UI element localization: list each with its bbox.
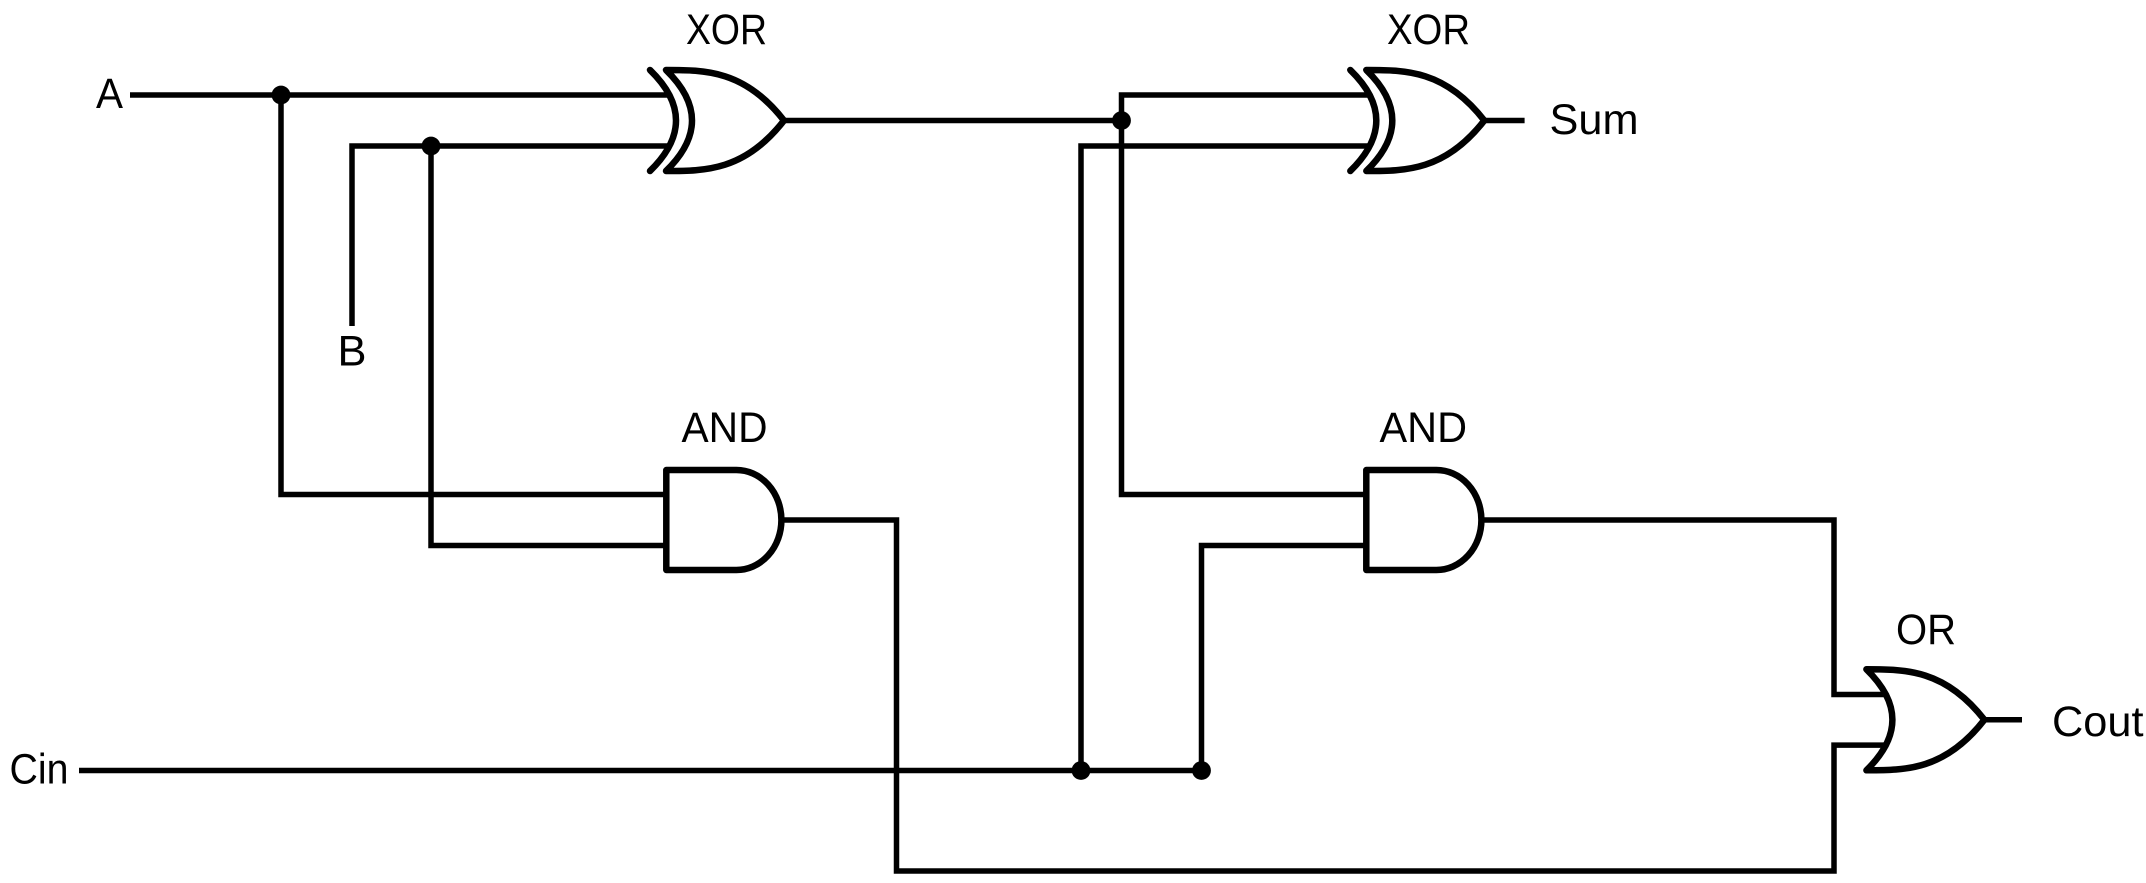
svg-text:Cin: Cin xyxy=(10,746,69,794)
XOR gate U3 (Sum) xyxy=(1350,70,1484,171)
node A junction xyxy=(272,86,291,105)
node XOR1 output junction xyxy=(1112,111,1131,130)
svg-text:AND: AND xyxy=(682,404,768,452)
wire Cin input xyxy=(79,768,1202,774)
node B junction xyxy=(422,137,441,156)
OR gate U5 (Cout) xyxy=(1866,669,1984,770)
node Cin junction 2 xyxy=(1192,761,1211,780)
svg-text:XOR: XOR xyxy=(686,6,767,54)
svg-text:Cout: Cout xyxy=(2052,698,2144,746)
wire A branch to AND1 top input xyxy=(281,95,666,495)
svg-text:OR: OR xyxy=(1896,606,1956,654)
wire XOR2 output stub (Sum) xyxy=(1484,118,1525,124)
svg-text:A: A xyxy=(96,70,123,118)
wire junction to XOR2 top input xyxy=(1122,95,1372,121)
wire AND2 output to OR top input xyxy=(1481,520,1884,695)
wire AND1 output to OR bottom input xyxy=(781,520,1884,871)
wire XOR1 output to junction xyxy=(784,118,1122,124)
wire OR output stub (Cout) xyxy=(1984,717,2022,723)
wire B branch to AND1 bottom input xyxy=(431,146,666,546)
wire B input xyxy=(352,146,671,326)
XOR gate U1 (A xor B) xyxy=(650,70,784,171)
wire Cin branch to XOR2 bottom input xyxy=(1081,146,1371,771)
svg-text:AND: AND xyxy=(1380,404,1468,452)
AND gate U4 xyxy=(1366,470,1481,570)
wire junction to AND2 top input xyxy=(1122,121,1367,495)
svg-text:Sum: Sum xyxy=(1550,96,1639,144)
svg-text:XOR: XOR xyxy=(1387,6,1470,54)
wire A input xyxy=(130,92,671,98)
svg-text:B: B xyxy=(338,328,367,376)
node Cin junction 1 xyxy=(1072,761,1091,780)
AND gate U2 (A and B) xyxy=(666,470,781,570)
wire Cin branch to AND2 bottom input xyxy=(1202,546,1367,771)
